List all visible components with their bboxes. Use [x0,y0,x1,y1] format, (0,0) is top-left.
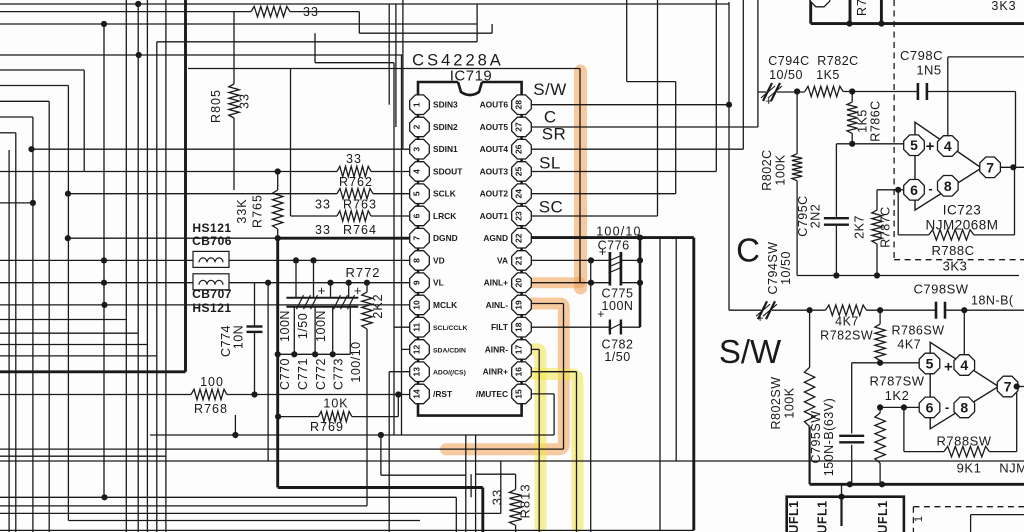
svg-text:10: 10 [412,300,422,310]
svg-text:R788SW: R788SW [936,434,991,449]
svg-text:SCL/CCLK: SCL/CCLK [433,325,467,332]
svg-text:R782SW: R782SW [820,329,873,343]
svg-text:24: 24 [514,189,524,199]
svg-text:DGND: DGND [433,233,458,243]
svg-text:UFL1: UFL1 [787,500,801,532]
svg-text:UFL1: UFL1 [816,500,830,532]
svg-text:10N: 10N [232,325,246,349]
svg-text:-: - [945,400,949,415]
svg-text:R802SW: R802SW [769,376,783,429]
svg-text:HS121: HS121 [192,221,231,235]
svg-text:R813: R813 [518,483,533,518]
svg-text:AGND: AGND [483,233,508,243]
svg-text:4: 4 [944,138,952,154]
svg-text:4K7: 4K7 [835,315,859,329]
svg-text:LRCK: LRCK [433,211,456,221]
svg-text:6: 6 [412,213,422,218]
svg-text:R769: R769 [310,420,344,434]
svg-text:R764: R764 [343,223,377,237]
svg-text:R802C: R802C [760,149,774,190]
svg-text:19: 19 [514,300,524,310]
svg-text:1: 1 [913,516,925,522]
svg-text:5: 5 [926,356,934,372]
svg-text:6: 6 [910,182,918,198]
svg-text:3K3: 3K3 [943,259,968,274]
svg-text:1K5: 1K5 [816,68,840,82]
svg-text:4: 4 [960,357,968,373]
svg-text:8: 8 [960,399,968,415]
svg-text:C794SW: C794SW [766,241,780,294]
svg-text:100K: 100K [773,154,787,185]
svg-text:25: 25 [514,167,524,177]
svg-text:2N2: 2N2 [809,204,823,228]
svg-text:NJM2068M: NJM2068M [925,218,998,233]
svg-text:7: 7 [986,159,994,175]
svg-text:R788C: R788C [932,243,975,258]
svg-text:VA: VA [497,255,508,265]
svg-text:ADO/(/CS): ADO/(/CS) [433,370,466,377]
svg-text:10K: 10K [323,397,348,411]
svg-text:17: 17 [514,345,524,355]
svg-text:1/50: 1/50 [604,350,630,364]
svg-text:C776: C776 [598,239,630,253]
svg-text:C798SW: C798SW [913,282,968,297]
svg-text:+: + [354,283,362,298]
svg-text:8: 8 [412,258,422,263]
svg-text:1K5: 1K5 [856,109,870,133]
svg-text:VD: VD [433,255,445,265]
svg-text:9: 9 [412,280,422,285]
svg-text:9K1: 9K1 [957,461,982,476]
svg-text:33: 33 [346,152,362,166]
svg-text:R787SW: R787SW [869,374,924,389]
svg-text:2K2: 2K2 [371,293,385,318]
svg-text:S/W: S/W [533,80,567,99]
svg-text:+: + [765,94,772,108]
svg-text:+: + [944,359,953,376]
svg-text:100/10: 100/10 [349,341,363,382]
svg-text:2: 2 [412,124,422,129]
svg-text:R765: R765 [250,194,264,228]
svg-text:-: - [928,181,932,196]
svg-text:AOUT2: AOUT2 [480,189,509,199]
svg-text:11: 11 [412,323,422,332]
svg-text:C: C [736,232,760,269]
svg-text:VL: VL [433,278,444,288]
svg-text:SL: SL [539,154,561,173]
svg-text:R805: R805 [209,89,223,123]
svg-text:7: 7 [1004,379,1012,395]
svg-text:100N: 100N [602,299,634,313]
svg-text:R786C: R786C [869,100,883,141]
svg-text:AOUT5: AOUT5 [480,122,509,132]
svg-text:22: 22 [514,233,524,243]
svg-text:18N-B(: 18N-B( [971,294,1014,308]
svg-text:IC723: IC723 [943,203,982,218]
svg-text:33: 33 [490,489,505,505]
svg-text:2K7: 2K7 [852,215,866,239]
svg-text:33: 33 [315,198,331,212]
svg-text:AINR-: AINR- [485,344,508,354]
svg-text:C795SW: C795SW [809,410,823,463]
svg-text:S/W: S/W [719,333,782,370]
svg-text:20: 20 [514,278,524,288]
svg-text:+: + [318,283,326,298]
svg-text:16: 16 [514,367,524,377]
svg-text:100/10: 100/10 [596,225,641,239]
svg-text:100N: 100N [278,310,292,342]
svg-text:CB707: CB707 [192,287,232,301]
svg-text:R772: R772 [345,265,380,280]
svg-text:33: 33 [303,5,319,19]
svg-text:33: 33 [238,93,252,109]
svg-text:15: 15 [514,389,524,399]
svg-text:SR: SR [542,125,567,144]
svg-text:AINL-: AINL- [486,300,509,310]
svg-text:100N: 100N [314,310,328,342]
svg-text:12: 12 [412,345,422,355]
svg-text:1: 1 [412,102,422,107]
svg-text:AOUT4: AOUT4 [480,144,509,154]
svg-text:R786SW: R786SW [892,324,945,338]
svg-text:AOUT6: AOUT6 [480,100,509,110]
svg-text:SDA/CDIN: SDA/CDIN [433,347,466,354]
svg-text:C798C: C798C [900,48,943,63]
svg-text:SDIN1: SDIN1 [433,144,458,154]
svg-text:AINR+: AINR+ [483,367,508,377]
svg-text:23: 23 [514,211,524,221]
svg-text:+: + [757,311,764,325]
svg-text:33: 33 [315,223,331,237]
svg-text:8: 8 [944,178,952,194]
svg-text:R782C: R782C [817,54,858,68]
svg-text:10/50: 10/50 [769,68,803,82]
svg-text:6: 6 [926,399,934,415]
svg-text:3K3: 3K3 [991,0,1016,13]
svg-text:FILT: FILT [491,322,509,332]
svg-text:AOUT3: AOUT3 [480,166,509,176]
svg-text:AINL+: AINL+ [484,278,509,288]
svg-text:5: 5 [412,191,422,196]
svg-text:1N5: 1N5 [916,63,941,78]
svg-text:18: 18 [514,322,524,332]
svg-text:C771: C771 [296,358,310,390]
svg-text:R78: R78 [855,0,869,16]
svg-text:1/50: 1/50 [296,313,310,339]
svg-text:C794C: C794C [768,54,809,68]
svg-text:7: 7 [412,236,422,241]
svg-text:C770: C770 [278,358,292,390]
svg-text:4: 4 [412,169,422,174]
svg-text:AOUT1: AOUT1 [480,211,509,221]
svg-text:IC719: IC719 [450,68,493,85]
svg-text:150N-B(63V): 150N-B(63V) [822,398,836,476]
svg-text:HS121: HS121 [192,301,231,315]
svg-text:/RST: /RST [433,389,453,399]
svg-text:1K2: 1K2 [885,388,910,403]
svg-text:28: 28 [514,100,524,110]
svg-text:SCLK: SCLK [433,189,456,199]
svg-text:SC: SC [539,198,564,217]
svg-text:33K: 33K [235,198,249,223]
svg-text:SDIN3: SDIN3 [433,100,458,110]
svg-text:C773: C773 [332,358,346,390]
svg-text:14: 14 [412,389,422,399]
svg-text:100: 100 [200,375,224,389]
svg-text:13: 13 [412,367,422,377]
svg-text:NJM: NJM [999,461,1024,476]
svg-text:3: 3 [412,147,422,152]
svg-text:MCLK: MCLK [433,300,457,310]
svg-text:26: 26 [514,144,524,154]
svg-text:R787C: R787C [879,206,893,247]
svg-text:R768: R768 [194,402,228,416]
svg-text:UFL1: UFL1 [876,500,890,532]
svg-text:100K: 100K [783,387,797,418]
svg-text:27: 27 [514,122,524,132]
svg-text:SDIN2: SDIN2 [433,122,458,132]
svg-text:CB706: CB706 [192,234,232,248]
svg-text:+: + [926,138,935,155]
svg-text:5: 5 [910,137,918,153]
svg-text:R762: R762 [339,175,373,189]
svg-text:R763: R763 [343,198,377,212]
svg-text:4K7: 4K7 [897,338,921,352]
svg-text:10/50: 10/50 [779,251,793,285]
svg-text:21: 21 [514,256,524,266]
svg-text:C772: C772 [314,358,328,390]
svg-text:SDOUT: SDOUT [433,166,463,176]
svg-text:/MUTEC: /MUTEC [476,389,508,399]
